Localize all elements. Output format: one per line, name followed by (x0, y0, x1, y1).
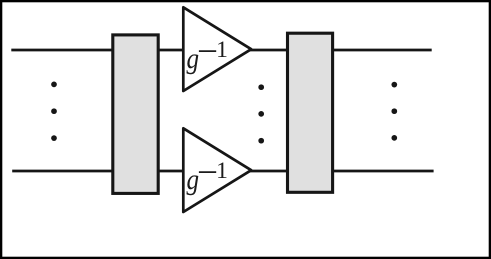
label g of A1 (187, 54, 199, 74)
block U1 (left mixing block) (113, 35, 158, 194)
label superscript 1 of A2 (218, 163, 226, 179)
label superscript 1 of A1 (218, 42, 226, 58)
vertical dots middle (more channels) (258, 84, 264, 90)
label superscript minus of A2 (199, 171, 216, 173)
amplifier A1 (top, gain g^-1) (183, 7, 251, 91)
wire bottom channel (12, 170, 433, 173)
vertical dots right (more channels) (391, 82, 397, 88)
block U2 (right mixing block) (288, 33, 333, 192)
label superscript minus of A1 (199, 50, 216, 52)
label g of A2 (187, 175, 199, 195)
amplifier A2 (bottom, gain g^-1) (183, 128, 251, 212)
vertical dots left (more channels) (51, 82, 57, 88)
wire top channel (11, 49, 431, 52)
